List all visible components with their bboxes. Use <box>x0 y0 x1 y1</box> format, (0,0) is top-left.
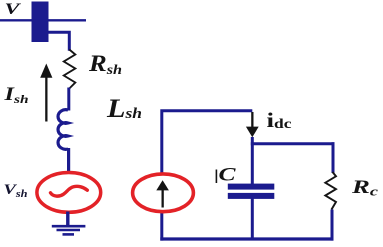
wire <box>251 137 254 185</box>
label C <box>215 170 217 184</box>
sine symbol <box>51 186 88 196</box>
wire <box>160 210 163 241</box>
inductor Lsh <box>58 110 68 150</box>
wire <box>331 210 334 241</box>
wire <box>162 111 253 174</box>
arrow inside current source <box>156 180 169 207</box>
resistor Rc <box>325 172 336 210</box>
wire <box>67 148 70 173</box>
resistor Rsh <box>64 50 76 89</box>
source Vsh <box>37 173 101 213</box>
svg-text:C: C <box>219 166 237 186</box>
svg-text:Vsh: Vsh <box>4 182 29 200</box>
wire <box>332 142 335 173</box>
terminal block <box>32 2 49 43</box>
svg-text:Lsh: Lsh <box>106 94 142 123</box>
wire <box>49 32 70 51</box>
wire <box>160 237 333 240</box>
capacitor C <box>228 184 274 199</box>
current arrow idc <box>246 112 259 137</box>
svg-text:Rsh: Rsh <box>88 51 122 78</box>
wire <box>251 142 335 145</box>
svg-text:Rc: Rc <box>351 177 379 199</box>
current source Idc <box>133 174 194 212</box>
wire <box>0 19 86 21</box>
ground <box>52 212 86 235</box>
wire <box>251 198 254 240</box>
svg-text:V: V <box>5 1 22 18</box>
svg-text:Ish: Ish <box>3 84 29 106</box>
svg-text:idc: idc <box>267 108 292 132</box>
current arrow Ish <box>40 64 52 122</box>
wire <box>67 88 70 111</box>
